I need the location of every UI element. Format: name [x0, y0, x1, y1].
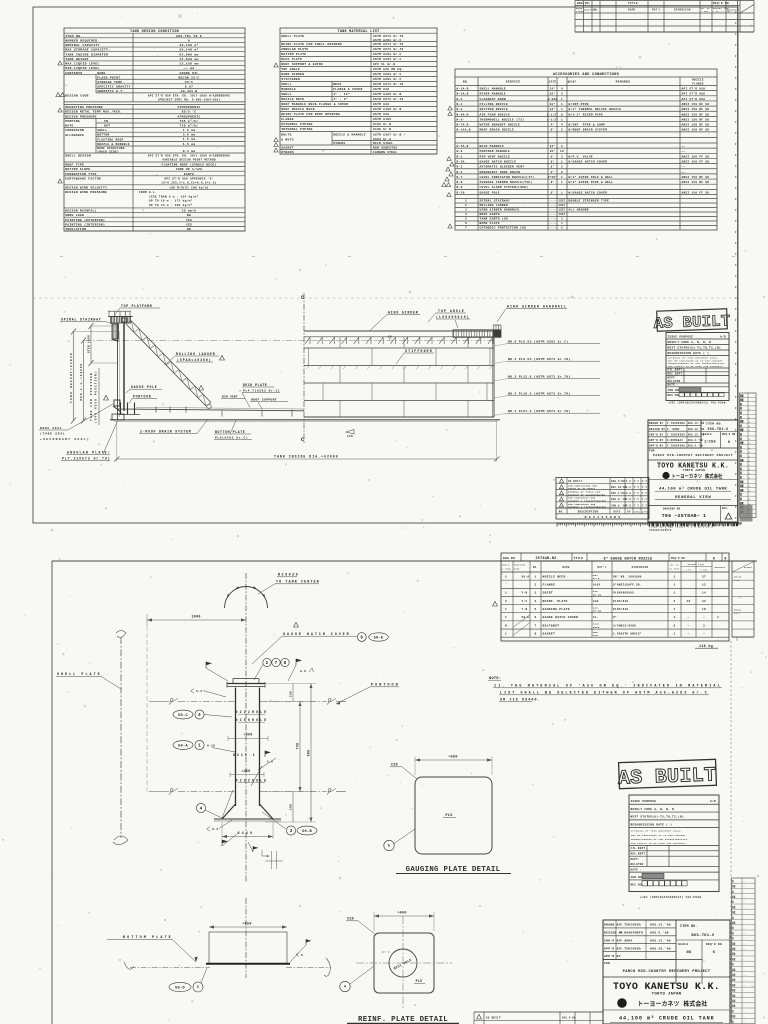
svg-text:(SPAN=10300): (SPAN=10300)	[177, 358, 211, 362]
label: DECK PLATE	[242, 383, 280, 408]
revision triangles left of material list	[274, 63, 278, 152]
svg-text:FLANGE: FLANGE	[281, 118, 294, 121]
svg-text:RIM VENT: RIM VENT	[222, 396, 238, 399]
page1 right fold line with punch dots	[737, 0, 739, 523]
revision triangles left of design condition table	[56, 61, 65, 183]
svg-text:R-20: R-20	[457, 191, 465, 194]
AS BUILT stamp page2	[617, 759, 716, 790]
svg-text:EXTERNAL PIPING: EXTERNAL PIPING	[281, 123, 313, 126]
spiral stairway stringer going down	[112, 324, 119, 342]
svg-text:●JEC (DRPLBAIU4AB8915) Y06-P: ●JEC (DRPLBAIU4AB8915) Y06-P06■	[640, 895, 701, 899]
svg-text:1.5 mm: 1.5 mm	[183, 138, 196, 141]
svg-text:AUG.12.'96: AUG.12.'96	[650, 923, 671, 927]
svg-text:DESIGN RAINFALL: DESIGN RAINFALL	[65, 210, 97, 213]
svg-text:NO.4 PL9.53 (ASTM A573 Gr.70): NO.4 PL9.53 (ASTM A573 Gr.70)	[508, 357, 571, 361]
svg-text:GAUGING PLATE: GAUGING PLATE	[543, 608, 570, 611]
dimension: tank inside dia	[114, 419, 500, 462]
svg-text:—: —	[742, 953, 745, 956]
svg-text:CRUDE OIL: CRUDE OIL	[180, 72, 199, 75]
label: PONTOON	[129, 395, 157, 404]
svg-text:A/D: A/D	[710, 799, 716, 803]
svg-text:—: —	[742, 901, 745, 904]
revision triangles left of accessories table	[442, 106, 454, 228]
svg-text:RESULT CODE A, B, R, N: RESULT CODE A, B, R, N	[631, 808, 675, 811]
issue purpose stamp page2	[629, 795, 719, 899]
triangle left of parts table	[493, 602, 498, 607]
svg-text:ANSI 150 RF SO: ANSI 150 RF SO	[682, 181, 710, 184]
svg-text:3: 3	[703, 624, 705, 627]
svg-text:NO.5 PL9.53 (ASTM A283 Gr.C): NO.5 PL9.53 (ASTM A283 Gr.C)	[508, 340, 568, 344]
svg-text:▂: ▂	[748, 446, 751, 449]
svg-text:8": 8"	[613, 615, 617, 619]
svg-text:1" - 2": 1" - 2"	[333, 97, 348, 101]
svg-text:1SET: 1SET	[558, 209, 565, 212]
gauging plate detail: rounded square	[415, 777, 492, 854]
label: WIND GIRDER (left)	[370, 311, 420, 331]
svg-text:DRAWN BY: DRAWN BY	[604, 924, 621, 927]
svg-text:—: —	[687, 632, 690, 635]
svg-text:●JEC (DRPLBAIU4AB8915) Y06-P: ●JEC (DRPLBAIU4AB8915) Y06-P06■	[668, 401, 726, 405]
issue purpose stamp page1	[666, 333, 729, 405]
svg-text:▂: ▂	[748, 416, 751, 419]
svg-text:NOT BE CONSTRUED AS TO OUR CON: NOT BE CONSTRUED AS TO OUR CONSENT	[631, 834, 686, 837]
svg-text:██: ██	[732, 979, 736, 982]
svg-text:14,630 mm: 14,630 mm	[179, 57, 198, 61]
svg-text:██: ██	[740, 399, 744, 402]
svg-text:12: 12	[702, 584, 706, 587]
svg-text:ANSI 150 RF SO: ANSI 150 RF SO	[682, 113, 710, 116]
svg-text:8: 8	[534, 632, 536, 635]
svg-text:1: 1	[674, 616, 676, 619]
shell plate vertical joints	[309, 337, 491, 417]
svg-text:██: ██	[732, 974, 736, 977]
svg-text:Ø231 HOLE: Ø231 HOLE	[393, 958, 412, 971]
svg-text:BOTTOM SLOPE: BOTTOM SLOPE	[65, 168, 90, 171]
svg-text:DESIGN PRESSURE: DESIGN PRESSURE	[65, 115, 97, 118]
svg-text:100: 100	[290, 804, 293, 810]
left shell plate long break line	[113, 631, 128, 845]
svg-text:▂: ▂	[748, 467, 751, 470]
svg-text:4: 4	[198, 714, 201, 718]
svg-text:—: —	[742, 963, 745, 966]
svg-text:W/GAUGE HATCH COVER: W/GAUGE HATCH COVER	[569, 190, 608, 194]
svg-text:██: ██	[732, 906, 736, 909]
svg-text:——: ——	[742, 948, 747, 951]
wind girder support brackets	[305, 337, 493, 344]
svg-text:ASTM A36: ASTM A36	[373, 103, 389, 106]
svg-text:4: 4	[200, 808, 203, 812]
svg-text:1 SET: 1 SET	[700, 569, 708, 572]
svg-text:█: █	[740, 450, 742, 453]
svg-text:INSULATION: INSULATION	[65, 228, 86, 231]
svg-text:GAUGE HATCH NOZZLE: GAUGE HATCH NOZZLE	[480, 160, 517, 163]
revision history table page1	[556, 478, 649, 520]
dimension 420	[222, 822, 273, 839]
weld flag upper-left of flange	[206, 662, 228, 681]
svg-text:1SET: 1SET	[558, 204, 565, 207]
bottom plate dim 650	[209, 923, 287, 929]
svg-text:W-900: W-900	[548, 98, 558, 101]
svg-text:ROLLING LADDER: ROLLING LADDER	[176, 352, 215, 356]
svg-text:≈450: ≈450	[242, 769, 251, 773]
svg-text:795 m³/hr: 795 m³/hr	[180, 119, 199, 123]
svg-text:W/2-3" RISER PIPE: W/2-3" RISER PIPE	[569, 112, 604, 116]
svg-text:——: ——	[742, 942, 747, 945]
svg-text:——: ——	[681, 166, 686, 169]
svg-text:MARK: MARK	[514, 568, 520, 571]
svg-text:8" GAUGE HATCH NOZZLE: 8" GAUGE HATCH NOZZLE	[603, 556, 652, 561]
svg-text:MAX.LIQUID LEVEL: MAX.LIQUID LEVEL	[65, 62, 100, 66]
svg-text:AS BUILT: AS BUILT	[653, 312, 730, 333]
svg-text:STORAGE TEMP.: STORAGE TEMP.	[97, 81, 124, 84]
svg-text:SHELL: SHELL	[97, 129, 107, 132]
svg-text:3" - 12": 3" - 12"	[333, 92, 350, 96]
svg-text:Y.S: Y.S	[626, 498, 631, 501]
svg-text:Y.T: Y.T	[634, 498, 639, 501]
svg-text:REQ'D NO.: REQ'D NO.	[713, 1, 731, 5]
balloons 2 7 8 and weld flag A-6	[254, 658, 314, 681]
dimension label: tank low/high position	[90, 368, 99, 425]
svg-text:NO.: NO.	[594, 9, 599, 12]
svg-text:GAUGING PLATE DETAIL: GAUGING PLATE DETAIL	[406, 866, 501, 874]
svg-text:—: —	[687, 616, 690, 619]
svg-text:1SET: 1SET	[558, 200, 565, 203]
svg-text:A.A: A.A	[626, 492, 631, 495]
svg-text:ASTM A106 Gr.B: ASTM A106 Gr.B	[373, 108, 402, 111]
svg-text:BY: BY	[627, 510, 631, 513]
small flag 120	[346, 430, 354, 438]
rolling ladder truss	[126, 321, 211, 409]
svg-text:ASTM A283 Gr.C: ASTM A283 Gr.C	[373, 53, 402, 56]
svg-text:BOTTOM PLATE: BOTTOM PLATE	[281, 53, 306, 56]
svg-text:Ø420: Ø420	[238, 831, 253, 835]
svg-text:AUG.4'98: AUG.4'98	[562, 1017, 576, 1020]
svg-text:ANSI 150 FF SO: ANSI 150 FF SO	[682, 191, 710, 194]
svg-text:GAUGE POLE: GAUGE POLE	[131, 385, 157, 389]
svg-text:THERMOWELL NOZZLE (TI): THERMOWELL NOZZLE (TI)	[480, 117, 525, 121]
svg-text:3: 3	[267, 855, 269, 858]
svg-text:Y.T: Y.T	[634, 492, 639, 495]
svg-text:REINF. PLATE: REINF. PLATE	[543, 600, 568, 603]
svg-text:TANK EARTH LUG: TANK EARTH LUG	[480, 218, 509, 221]
svg-text:85/5 °C: 85/5 °C	[182, 110, 197, 114]
svg-text:2: 2	[534, 584, 536, 587]
svg-text:█: █	[740, 412, 742, 415]
svg-text:CORROSION: CORROSION	[65, 129, 84, 132]
svg-text:B65-TK1-6: B65-TK1-6	[691, 934, 715, 938]
svg-text:----: ----	[549, 209, 557, 212]
svg-text:NAME PLATE: NAME PLATE	[480, 222, 500, 225]
gauging plate balloon 5	[384, 829, 415, 851]
svg-text:FOR: FOR	[604, 962, 610, 965]
svg-text:M.HASHIMOTO: M.HASHIMOTO	[620, 932, 643, 935]
svg-text:20": 20"	[550, 149, 556, 153]
svg-text:█: █	[740, 455, 742, 458]
gauge pole	[122, 318, 127, 411]
triangle above gauge hatch label	[294, 623, 299, 628]
dim bracket 460	[228, 736, 268, 741]
svg-text:(TUBE SEAL: (TUBE SEAL	[40, 432, 65, 436]
svg-text:—: —	[702, 632, 705, 635]
svg-text:Y.T: Y.T	[642, 492, 647, 495]
svg-text:W-1A-D: W-1A-D	[457, 88, 469, 91]
svg-text:▂: ▂	[748, 450, 751, 453]
reinf plate C20 label	[346, 918, 376, 936]
svg-text:WIND GIRDER: WIND GIRDER	[388, 311, 418, 315]
svg-text:APPROVAL OF THIS DOCUMENT SHAL: APPROVAL OF THIS DOCUMENT SHALL	[631, 830, 681, 833]
svg-text:▂: ▂	[748, 498, 751, 501]
svg-text:—: —	[742, 922, 745, 925]
svg-text:1SET: 1SET	[558, 213, 565, 216]
svg-text:SHELL: SHELL	[281, 93, 292, 96]
svg-text:965-TK1 TO 6: 965-TK1 TO 6	[176, 34, 202, 38]
svg-text:1: 1	[198, 745, 201, 749]
svg-text:ALLOWANCE: ALLOWANCE	[65, 134, 84, 137]
svg-text:—: —	[742, 994, 745, 997]
svg-text:—: —	[742, 968, 745, 971]
svg-text:----: ----	[549, 222, 557, 225]
svg-text:W-3A,B: W-3A,B	[457, 93, 469, 96]
svg-text:1: 1	[561, 118, 563, 121]
svg-text:NO.: NO.	[559, 510, 564, 513]
svg-text:TOP PLATFORM: TOP PLATFORM	[121, 304, 152, 308]
svg-text:1: 1	[505, 616, 507, 619]
reinf plate detail	[356, 916, 452, 1010]
svg-text:DESIGN METAL TEMP.MAX./MIN.: DESIGN METAL TEMP.MAX./MIN.	[65, 110, 122, 114]
svg-text:BOTTOM: BOTTOM	[97, 134, 109, 137]
svg-text:RESUBMISSION DATE ( ): RESUBMISSION DATE ( )	[631, 823, 673, 827]
label: ROOF SUPPORT	[250, 399, 288, 410]
svg-text:2: 2	[561, 129, 563, 132]
svg-text:3/4UNC3/4X80: 3/4UNC3/4X80	[613, 623, 636, 627]
svg-text:——: ——	[742, 885, 747, 888]
svg-text:50-D: 50-D	[175, 986, 185, 990]
svg-text:AND LIMITS TO BE USED FOR CONT: AND LIMITS TO BE USED FOR CONTRACT.	[631, 842, 687, 845]
svg-text:(90 M/S(V) 190 km/h): (90 M/S(V) 190 km/h)	[169, 185, 209, 189]
svg-text:1.5 mm: 1.5 mm	[183, 129, 196, 132]
svg-text:██: ██	[740, 485, 744, 488]
svg-text:Y.T: Y.T	[634, 486, 639, 489]
svg-text:R-8: R-8	[457, 181, 463, 184]
label: GAUGE HATCH COVER with balloons 6 / 50-E	[252, 633, 388, 664]
svg-text:ANSI 150 FF SO: ANSI 150 FF SO	[682, 160, 710, 163]
svg-text:REMARKS: REMARKS	[727, 9, 739, 12]
balloon 3 50-B	[262, 812, 317, 835]
svg-text:2: 2	[266, 662, 269, 666]
bottom plate detail	[124, 898, 330, 978]
svg-text:REQ'D: REQ'D	[502, 564, 510, 567]
svg-text:WIND GIRDER HANDRAIL: WIND GIRDER HANDRAIL	[480, 209, 521, 212]
svg-text:DRAWING NO.: DRAWING NO.	[663, 508, 682, 511]
svg-text:DATE :: DATE :	[668, 384, 679, 387]
label: ANGULAR PLATE	[61, 421, 118, 461]
svg-text:NAME: NAME	[97, 72, 105, 75]
svg-text:3: 3	[534, 592, 536, 595]
svg-text:PL4.7(A283 Gr.C): PL4.7(A283 Gr.C)	[243, 389, 280, 393]
svg-text:50-A: 50-A	[178, 744, 188, 748]
svg-text:MAX.L.L.=13150: MAX.L.L.=13150	[80, 364, 83, 401]
svg-text:W/INT. PIPE & SUMP: W/INT. PIPE & SUMP	[569, 123, 606, 127]
svg-text:█: █	[740, 407, 742, 410]
svg-text:TANK LOW POSITION: TANK LOW POSITION	[90, 373, 93, 421]
svg-text:1.5X85TH ANSI8": 1.5X85TH ANSI8"	[613, 631, 642, 635]
label: 2-ROOF DRAIN SYSTEM	[139, 419, 208, 434]
svg-text:—: —	[742, 1015, 745, 1018]
svg-text:██: ██	[732, 953, 736, 956]
svg-text:ATMOSPHERIC: ATMOSPHERIC	[177, 106, 200, 109]
weld flags right of bottom plate	[290, 939, 311, 962]
floating roof deck line	[118, 407, 305, 411]
svg-text:█: █	[740, 416, 742, 419]
svg-text:██: ██	[732, 1005, 736, 1008]
page 1 sheet frame	[33, 0, 738, 523]
svg-text:30": 30"	[550, 92, 556, 96]
svg-text:——: ——	[742, 984, 747, 987]
dimension: small upper	[88, 323, 118, 366]
svg-text:█: █	[740, 498, 742, 501]
svg-text:REMARKS: REMARKS	[715, 566, 726, 569]
svg-text:ROOF DRAIN NOZZLE: ROOF DRAIN NOZZLE	[480, 129, 515, 132]
svg-text:F.C3: F.C3	[734, 579, 741, 582]
svg-text:SERVICE: SERVICE	[506, 81, 521, 84]
svg-text:ASB: ASB	[593, 634, 598, 637]
svg-text:7: 7	[275, 662, 278, 666]
svg-text:—: —	[742, 911, 745, 914]
svg-text:----: ----	[549, 227, 557, 230]
svg-text:REC.DEPT.: REC.DEPT.	[668, 372, 685, 375]
gauging plate C20 label	[390, 764, 417, 780]
svg-text:ASTM A283 Gr.C: ASTM A283 Gr.C	[373, 78, 402, 81]
svg-text:1: 1	[674, 592, 676, 595]
svg-text:Y-D: Y-D	[522, 608, 528, 611]
svg-text:1.5 mm: 1.5 mm	[183, 143, 196, 146]
svg-text:——: ——	[742, 896, 747, 899]
pipe annotation texts	[233, 710, 267, 783]
svg-text:----: ----	[549, 213, 557, 216]
svg-text:TANK HEIGHT=14630: TANK HEIGHT=14630	[70, 353, 73, 403]
svg-text:1: 1	[534, 575, 536, 578]
svg-text:2: 2	[561, 227, 563, 230]
svg-text:SPECIFIC GRAVITY: SPECIFIC GRAVITY	[97, 85, 131, 88]
svg-text:CLEANOUT DOOR: CLEANOUT DOOR	[480, 98, 506, 101]
svg-text:██: ██	[740, 429, 744, 432]
svg-text:N-1: N-1	[457, 103, 463, 106]
svg-text:ASTM A105: ASTM A105	[373, 118, 391, 121]
svg-text:CARBON STEEL: CARBON STEEL	[373, 151, 397, 154]
svg-text:8"ANSI150FF.SO.: 8"ANSI150FF.SO.	[613, 583, 642, 587]
weld flag mid right of pipe	[251, 751, 276, 786]
bottom small bracket 3	[262, 850, 283, 869]
svg-text:——: ——	[681, 171, 686, 174]
svg-text:█: █	[740, 476, 742, 479]
svg-text:A105: A105	[593, 584, 601, 587]
svg-text:NO.3 PL12.6 (ASTM A573 Gr.70): NO.3 PL12.6 (ASTM A573 Gr.70)	[508, 375, 571, 379]
svg-text:Gr.B: Gr.B	[593, 577, 600, 580]
svg-text:& NUTS: & NUTS	[281, 139, 294, 142]
svg-text:1 PC: 1 PC	[686, 569, 692, 572]
label: TOP ANGLE (L90X90X10)	[428, 309, 470, 328]
svg-text:N-4A-H: N-4A-H	[457, 113, 469, 116]
page 2 sheet frame (partially visible)	[52, 561, 757, 1024]
svg-text:LEVEL INDICATOR NOZZLE(LIT): LEVEL INDICATOR NOZZLE(LIT)	[480, 175, 535, 179]
svg-text:REV.: REV.	[722, 507, 729, 510]
svg-text:2: 2	[561, 145, 563, 148]
svg-text:API ST'D 650: API ST'D 650	[682, 87, 706, 91]
table: ACCESSORIES AND CONNECTIONS	[455, 69, 717, 230]
svg-text:█: █	[740, 437, 742, 440]
svg-text:Ø219.1: Ø219.1	[233, 753, 255, 757]
svg-text:DATE: DATE	[613, 510, 620, 513]
svg-text:NEXT STATUS(A)-T1,T8,T2,(B): NEXT STATUS(A)-T1,T8,T2,(B)	[668, 346, 721, 350]
svg-text:REMARKS: REMARKS	[616, 81, 631, 84]
svg-text:2: 2	[674, 600, 676, 603]
svg-text:3: 3	[717, 616, 719, 619]
svg-text:API ST'D 650 8TH. ED. JULY 198: API ST'D 650 8TH. ED. JULY 1980 W/ADDEND…	[148, 94, 230, 98]
svg-text:—: —	[742, 989, 745, 992]
svg-text:ASTM A573 Gr.70: ASTM A573 Gr.70	[373, 98, 404, 101]
svg-text:W/2" GUIDE PIPE & WELL: W/2" GUIDE PIPE & WELL	[569, 180, 614, 184]
revision table fragment page2 bottom	[474, 1012, 603, 1024]
svg-text:W-6: W-6	[457, 150, 463, 153]
svg-text:ITEM NO.: ITEM NO.	[706, 423, 723, 426]
svg-text:ISSUE PURPOSE: ISSUE PURPOSE	[668, 336, 694, 339]
svg-text:ASTM A283 Gr.C: ASTM A283 Gr.C	[373, 73, 402, 76]
svg-text:——: ——	[742, 1010, 747, 1013]
svg-text:24": 24"	[550, 87, 556, 91]
svg-text:PL6X460X595: PL6X460X595	[613, 592, 634, 595]
svg-text:3: 3	[561, 155, 563, 158]
svg-text:5: 5	[197, 985, 199, 989]
svg-text:AROMATIC K.T.: AROMATIC K.T.	[97, 90, 124, 93]
svg-text:——: ——	[742, 937, 747, 940]
svg-text:----: ----	[549, 200, 557, 203]
svg-text:——: ——	[742, 979, 747, 982]
wind girder handrail posts at right end	[493, 325, 501, 330]
svg-text:EMERGENCY ROOF DRAIN: EMERGENCY ROOF DRAIN	[480, 171, 521, 174]
svg-text:█: █	[732, 880, 734, 883]
svg-text:UP TO 34 m : 205 kg/m²: UP TO 34 m : 205 kg/m²	[149, 203, 193, 207]
svg-text:A106 Gr.B: A106 Gr.B	[373, 128, 391, 131]
svg-text:SIZE: SIZE	[549, 81, 557, 84]
svg-text:6: 6	[728, 441, 731, 445]
svg-text:R-9: R-9	[457, 186, 463, 189]
svg-text:NO: NO	[187, 228, 191, 231]
label: WIND GIRDER HANDRAIL	[497, 305, 567, 323]
svg-text:▂: ▂	[748, 455, 751, 458]
stiffener tick marks	[306, 366, 492, 369]
svg-text:DEC.10'96: DEC.10'96	[611, 486, 627, 489]
svg-text:██: ██	[732, 896, 736, 899]
svg-text:██: ██	[732, 994, 736, 997]
angular plate dark corner	[112, 414, 124, 420]
svg-text:AL.: AL.	[593, 616, 599, 619]
svg-text:2: 2	[561, 93, 563, 96]
svg-text:Y.T: Y.T	[634, 480, 639, 483]
svg-text:3.0 mm: 3.0 mm	[183, 134, 196, 137]
svg-text:4T9601Y030978: 4T9601Y030978	[649, 529, 672, 532]
svg-text:WIND GIRDER: WIND GIRDER	[281, 73, 304, 76]
svg-text:Y.TSUCHIDA: Y.TSUCHIDA	[667, 422, 685, 425]
svg-text:6-4: 6-4	[212, 828, 218, 831]
svg-text:2: 2	[465, 204, 467, 207]
svg-text:DESIGN CODE: DESIGN CODE	[65, 94, 89, 98]
svg-text:44,100 m³ CRUDE OIL TANK: 44,100 m³ CRUDE OIL TANK	[659, 487, 727, 492]
svg-text:(900 HIGH POSITION): (900 HIGH POSITION)	[94, 371, 98, 423]
svg-text:OR EQ: OR EQ	[593, 593, 601, 596]
svg-text:█: █	[732, 932, 734, 935]
svg-text:W-5A,B: W-5A,B	[457, 145, 469, 148]
svg-text:ASTM A573 Gr.70: ASTM A573 Gr.70	[373, 35, 404, 38]
